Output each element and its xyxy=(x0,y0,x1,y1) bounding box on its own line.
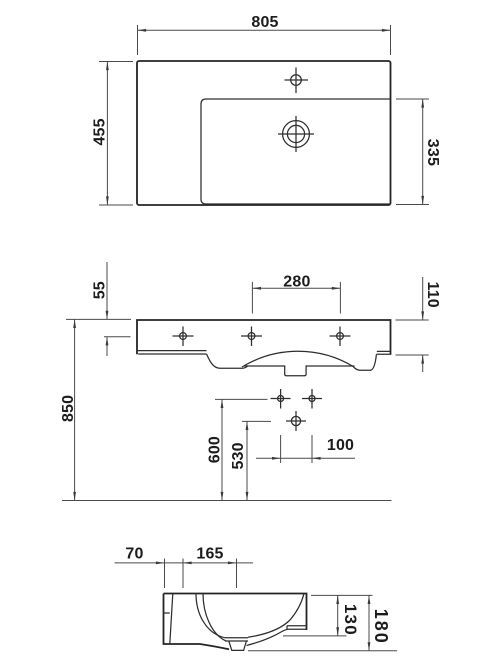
front view underside profile left xyxy=(207,354,249,368)
svg-text:100: 100 xyxy=(327,437,354,454)
dimension 100 xyxy=(256,435,355,463)
svg-text:280: 280 xyxy=(283,273,310,290)
overflow hole xyxy=(286,411,306,431)
front view mounting hole middle xyxy=(241,327,262,347)
dimension 70 and 165 xyxy=(115,546,254,589)
svg-text:110: 110 xyxy=(424,281,441,307)
front view left lip double line xyxy=(137,351,207,354)
side view front lip xyxy=(287,626,307,630)
svg-text:600: 600 xyxy=(207,436,224,463)
dimension 850 xyxy=(60,319,131,500)
fixing hole left xyxy=(271,389,291,409)
side view drain body xyxy=(229,641,247,650)
top view inner basin rectangle xyxy=(201,99,391,204)
dimension 180 xyxy=(248,595,397,650)
svg-text:530: 530 xyxy=(230,442,247,469)
side view deck and front edge xyxy=(164,594,307,631)
svg-text:130: 130 xyxy=(341,604,360,636)
svg-text:55: 55 xyxy=(91,281,108,299)
svg-text:335: 335 xyxy=(424,139,441,166)
dimension 280 xyxy=(252,273,340,313)
front view slab outline xyxy=(137,320,391,354)
dimension 335 xyxy=(396,99,441,205)
side view bowl inner curve xyxy=(196,594,225,638)
svg-text:850: 850 xyxy=(60,395,77,422)
top view outer rectangle xyxy=(137,61,391,205)
side view bowl wall thickness curve xyxy=(203,594,227,642)
front view mounting hole left xyxy=(173,327,194,347)
side view drain flange xyxy=(225,638,248,641)
front view dome chord with drain tab xyxy=(244,366,355,376)
svg-text:165: 165 xyxy=(196,546,223,563)
dimension 805 xyxy=(138,14,391,55)
dimension 110 xyxy=(396,277,442,372)
dimension 530 xyxy=(230,421,271,500)
side view front underside curve xyxy=(247,629,288,645)
svg-text:455: 455 xyxy=(91,118,108,145)
side view back wall xyxy=(164,594,230,650)
front view underside dome xyxy=(242,351,354,367)
svg-text:70: 70 xyxy=(125,546,143,563)
fixing hole right xyxy=(302,389,322,409)
dimension 55 xyxy=(91,262,130,356)
top view small faucet hole xyxy=(285,68,309,94)
svg-text:180: 180 xyxy=(371,609,391,645)
dimension 455 xyxy=(91,62,133,206)
front view underside profile right xyxy=(354,351,392,370)
floor line xyxy=(62,500,392,502)
side view bowl front inner curve xyxy=(248,594,304,638)
svg-text:805: 805 xyxy=(251,14,278,31)
dimension 130 xyxy=(283,595,373,636)
dimension 600 xyxy=(207,399,268,500)
side view back wall inner line xyxy=(164,594,173,645)
front view mounting hole right xyxy=(330,327,351,347)
top view drain hole xyxy=(278,116,314,152)
